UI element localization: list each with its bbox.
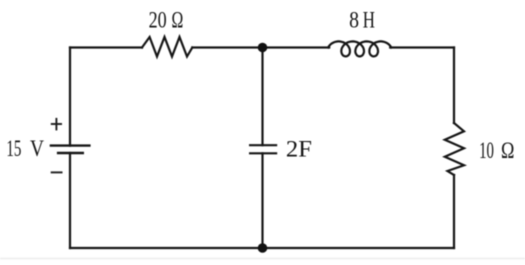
svg-text:H: H: [363, 8, 375, 34]
battery 15V bottom plate (-): [57, 152, 84, 154]
svg-text:Ω: Ω: [172, 8, 184, 34]
svg-text:20: 20: [149, 8, 167, 34]
wire bottom horizontal: [70, 247, 454, 249]
wire node A to inductor: [263, 46, 330, 48]
faint page edge line: [0, 258, 525, 260]
svg-text:V: V: [30, 136, 44, 162]
node A junction dot: [258, 43, 268, 53]
battery 15V top plate (+): [50, 144, 91, 146]
minus polarity mark: [51, 171, 63, 173]
inductor 8H coil: [328, 41, 391, 56]
resistor 20ohm zigzag: [142, 37, 192, 57]
node B junction dot: [258, 243, 268, 253]
capacitor 2F top plate: [249, 144, 277, 146]
wire right vertical upper: [453, 48, 455, 124]
wire inductor to top-right corner: [390, 46, 454, 48]
wire R1 to node A: [192, 46, 262, 48]
wire right vertical lower: [453, 175, 455, 248]
resistor 10ohm zigzag vertical: [445, 123, 464, 175]
wire left vertical lower: [69, 153, 71, 248]
plus polarity mark: [51, 118, 62, 130]
wire top-left horizontal (source to R1): [70, 46, 142, 48]
wire middle vertical lower (C to node B): [261, 153, 263, 248]
capacitor 2F bottom plate: [249, 152, 277, 154]
svg-text:10: 10: [479, 138, 494, 164]
svg-text:8: 8: [349, 8, 359, 34]
wire middle vertical upper (node A to C): [261, 48, 263, 146]
svg-text:15: 15: [6, 136, 21, 162]
svg-text:Ω: Ω: [501, 138, 514, 164]
svg-text:2F: 2F: [286, 136, 312, 162]
wire left vertical upper: [69, 48, 71, 146]
